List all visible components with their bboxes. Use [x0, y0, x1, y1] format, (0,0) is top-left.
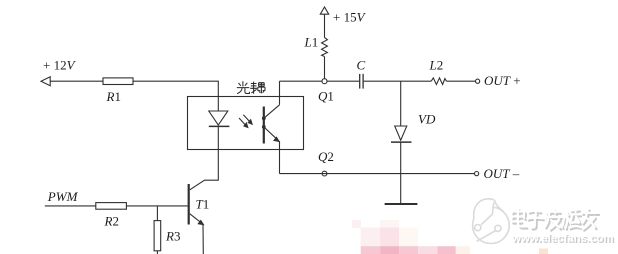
inductor L2 — [429, 58, 447, 85]
node Q1 — [318, 79, 334, 104]
wire VD to ground — [400, 142, 402, 204]
svg-text:VD: VD — [418, 112, 436, 127]
svg-text:OUT +: OUT + — [484, 73, 521, 88]
phototransistor inside optocoupler — [262, 105, 280, 144]
PWM input label — [47, 189, 79, 204]
svg-text:Q1: Q1 — [318, 88, 334, 103]
diode VD — [391, 112, 436, 143]
wire top rail left of C — [280, 80, 360, 82]
wire L2 to OUT+ — [446, 80, 475, 82]
light arrows — [239, 115, 253, 128]
svg-text:C: C — [357, 58, 366, 73]
svg-text:+ 12V: + 12V — [43, 58, 77, 73]
resistor R1 — [103, 78, 133, 104]
wire PWM to R2 — [45, 205, 96, 207]
svg-text:Q2: Q2 — [318, 149, 334, 164]
wire LED cathode to T1 collector — [190, 126, 219, 189]
svg-text:PWM: PWM — [47, 189, 79, 204]
svg-text:+ 15V: + 15V — [333, 10, 367, 25]
node OUT- terminal — [475, 166, 520, 181]
svg-text:OUT –: OUT – — [484, 166, 520, 181]
svg-text:L1: L1 — [304, 35, 319, 50]
svg-text:T1: T1 — [196, 197, 210, 212]
ground — [385, 203, 418, 205]
wire VD branch vertical upper — [400, 81, 402, 126]
wire emitter to Q2 rail — [279, 141, 281, 174]
svg-text:L2: L2 — [429, 58, 444, 73]
svg-text:R1: R1 — [106, 89, 121, 104]
LED D1 inside optocoupler — [209, 111, 230, 126]
optocoupler label 光耦 — [237, 81, 265, 93]
wire C to L2 — [364, 80, 432, 82]
wire bottom rail Q2/OUT- — [280, 173, 475, 175]
node Q2 — [318, 149, 334, 176]
wire R2 to T1 base — [126, 205, 187, 207]
svg-text:www.elecfans.com: www.elecfans.com — [511, 233, 614, 245]
optocoupler box — [188, 97, 304, 150]
wire T1 emitter down — [202, 225, 204, 254]
svg-text:R2: R2 — [104, 213, 119, 228]
wire arrow to R1 — [50, 80, 103, 82]
power +12V label — [43, 58, 77, 73]
power +15V arrow — [320, 7, 366, 25]
wire R1 to LED anode corner — [133, 81, 218, 111]
resistor R3 — [154, 221, 180, 251]
power +12V arrow — [41, 77, 50, 86]
wire junction to R3 — [156, 206, 158, 221]
resistor R2 — [96, 203, 127, 229]
wire R3 bottom — [156, 251, 158, 254]
svg-text:R3: R3 — [165, 229, 180, 244]
inductor L1 — [304, 14, 328, 78]
wire collector to Q1 rail — [279, 81, 281, 105]
node OUT+ terminal — [476, 73, 521, 88]
transistor T1 — [189, 184, 210, 225]
capacitor C — [357, 58, 366, 89]
